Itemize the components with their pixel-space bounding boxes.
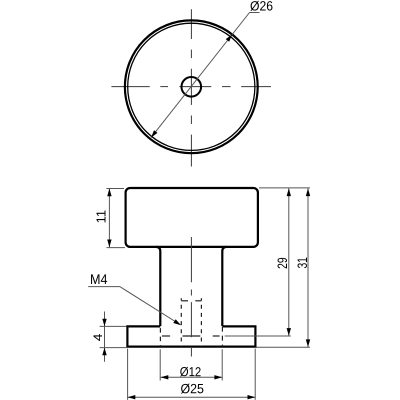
dim 31 extension bottom [257, 346, 311, 348]
centerline horizontal (top view) [111, 86, 271, 88]
svg-text:Ø12: Ø12 [180, 364, 202, 379]
arrow 29 bottom [287, 328, 291, 336]
hidden thread left line [180, 298, 182, 346]
dim 29/31 extension top [259, 187, 310, 189]
dim Ø25 extension right [254, 349, 256, 400]
hidden stem end face [162, 335, 220, 337]
hidden thread top edge [181, 300, 201, 302]
arrow Ø25 right [248, 395, 256, 399]
dim 11 extension bottom [107, 247, 126, 249]
svg-text:29: 29 [275, 257, 290, 269]
dim 11 line [108, 189, 110, 248]
dim 31 line [307, 188, 309, 347]
dim 11 extension top [107, 188, 125, 190]
arrow 31 bottom [306, 339, 310, 347]
centerline vertical (top view) [190, 9, 192, 166]
center hole circle [182, 77, 202, 97]
flange outline [127, 326, 255, 346]
outer circle (Ø26 outline) [125, 20, 258, 153]
hidden bore right edge in flange [221, 327, 223, 347]
dim 29 extension bottom [225, 335, 291, 337]
arrow 4 bottom (outside) [102, 348, 106, 356]
arrowheads [102, 188, 310, 399]
stem left side with fillet [156, 247, 160, 326]
hidden bore left edge in flange [159, 327, 161, 347]
arrow Ø12 right [214, 375, 222, 379]
dim 4 extension top [100, 325, 127, 327]
svg-text:Ø26: Ø26 [250, 0, 273, 14]
arrow 29 top [287, 188, 291, 196]
Ø26 arrowhead lower-left [149, 130, 157, 139]
arrow M4 leader [173, 319, 182, 327]
dim Ø12 extension right [221, 349, 223, 380]
arrow 11 top [107, 189, 111, 197]
head outline (rounded) [126, 188, 258, 247]
centerline vertical (front view) [190, 237, 192, 357]
Ø26 arrowhead upper-right [226, 33, 234, 42]
dim Ø12 extension left [159, 349, 161, 380]
svg-text:31: 31 [295, 257, 310, 269]
inner chamfer circle [128, 23, 255, 150]
arrow 11 bottom [107, 240, 111, 248]
M4 leader [88, 287, 180, 325]
dim Ø12 line [161, 376, 223, 378]
arrow Ø12 left [161, 375, 169, 379]
svg-text:4: 4 [91, 333, 105, 341]
svg-text:11: 11 [94, 210, 108, 224]
svg-text:M4: M4 [90, 271, 108, 287]
dim Ø25 line [128, 396, 256, 398]
stem right side with fillet [222, 247, 226, 326]
dim Ø25 extension left [127, 349, 129, 400]
svg-text:Ø25: Ø25 [180, 381, 204, 396]
arrow 4 top (outside) [102, 319, 106, 327]
arrow 31 top [306, 188, 310, 196]
Ø26 dimension leader line [151, 13, 260, 138]
dim 4 line [104, 312, 106, 362]
arrow Ø25 left [128, 395, 136, 399]
dim 4 extension bottom [100, 347, 127, 349]
hidden thread right line [200, 298, 202, 346]
dim 29 line [288, 188, 290, 335]
